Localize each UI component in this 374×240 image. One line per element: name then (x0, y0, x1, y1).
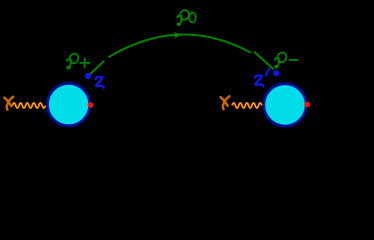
pion leg from z vertex (left) (90, 61, 104, 74)
pion propagator arc (pi0) (108, 34, 251, 57)
red vertex dot (left blob) (88, 102, 94, 108)
red vertex dot (right blob) (304, 102, 310, 108)
blue vertex dot z (85, 73, 91, 79)
blob right (nucleon) (264, 84, 306, 126)
photon wavy line (left) (12, 103, 45, 108)
prime mark of z' (266, 69, 269, 75)
label wp0 (177, 10, 195, 25)
label z' (255, 75, 264, 86)
label wp- (275, 53, 298, 68)
photon gamma label (left) (4, 97, 13, 110)
blob left (nucleon) (47, 83, 89, 125)
arrow on arc (174, 32, 182, 38)
blue vertex dot z' (273, 70, 279, 76)
label wp+ (charged pion) (67, 54, 90, 69)
photon wavy line (right) (232, 103, 262, 108)
label z (96, 77, 104, 88)
pion leg to z' vertex (right) (254, 52, 274, 70)
photon gamma label (right) (221, 96, 230, 109)
